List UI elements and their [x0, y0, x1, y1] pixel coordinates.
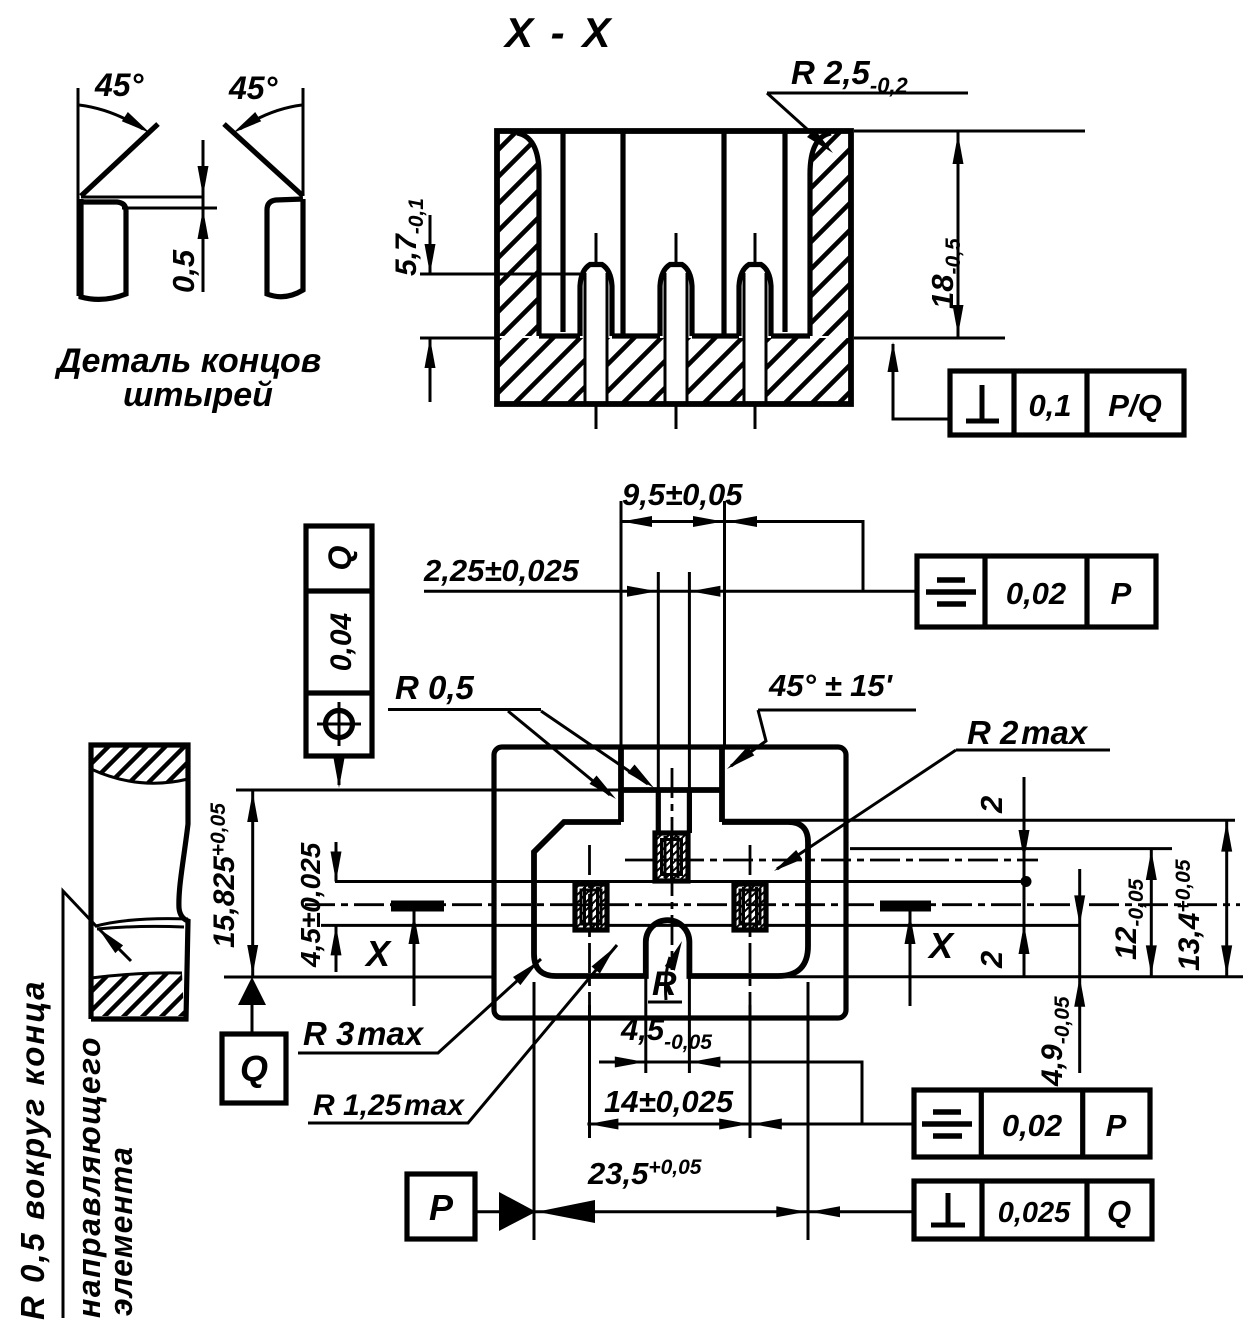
svg-text:Р: Р — [429, 1187, 454, 1228]
svg-text:Р/Q: Р/Q — [1108, 388, 1161, 423]
svg-text:2: 2 — [974, 951, 1009, 969]
svg-text:Q: Q — [1107, 1194, 1131, 1229]
svg-text:Р: Р — [1111, 576, 1132, 611]
svg-text:0,02: 0,02 — [1002, 1108, 1062, 1143]
svg-text:R 0,5 вокруг конца: R 0,5 вокруг конца — [14, 979, 51, 1320]
svg-text:Деталь концов: Деталь концов — [54, 342, 321, 380]
svg-text:R 3 max: R 3 max — [303, 1015, 425, 1052]
svg-text:0,02: 0,02 — [1006, 576, 1066, 611]
svg-text:0,5: 0,5 — [166, 249, 201, 293]
svg-text:Р: Р — [1106, 1108, 1127, 1143]
svg-text:R 0,5: R 0,5 — [395, 669, 475, 706]
svg-text:R 1,25 max: R 1,25 max — [313, 1089, 465, 1122]
svg-text:направляющего: направляющего — [71, 1036, 107, 1318]
svg-text:Q: Q — [240, 1048, 268, 1089]
svg-text:45°: 45° — [94, 67, 144, 103]
svg-text:штырей: штырей — [123, 376, 273, 414]
svg-text:R 2 max: R 2 max — [967, 714, 1089, 751]
svg-text:0,04: 0,04 — [325, 612, 358, 671]
svg-text:элемента: элемента — [103, 1146, 139, 1316]
svg-text:X: X — [927, 925, 955, 966]
svg-text:Q: Q — [322, 545, 358, 570]
svg-text:X: X — [364, 933, 392, 974]
svg-text:45° ± 15': 45° ± 15' — [768, 668, 894, 703]
svg-text:0,1: 0,1 — [1028, 388, 1071, 423]
svg-text:9,5±0,05: 9,5±0,05 — [622, 477, 743, 512]
svg-text:2,25±0,025: 2,25±0,025 — [423, 553, 580, 588]
svg-text:2: 2 — [974, 796, 1009, 814]
svg-text:0,025: 0,025 — [998, 1197, 1071, 1229]
svg-text:45°: 45° — [228, 70, 278, 106]
svg-text:4,5±0,025: 4,5±0,025 — [295, 842, 326, 968]
svg-text:X - X: X - X — [503, 9, 613, 56]
svg-text:14±0,025: 14±0,025 — [604, 1084, 734, 1119]
